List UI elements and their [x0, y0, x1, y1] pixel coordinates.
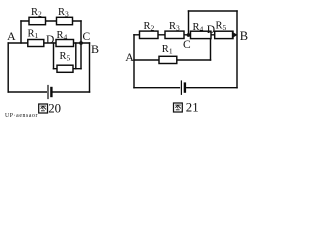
- svg-text:R2: R2: [144, 21, 155, 33]
- svg-text:R4: R4: [57, 30, 68, 42]
- battery cell 21: short thick plate: [184, 84, 186, 92]
- resistor R3 box: [57, 17, 73, 24]
- resistor R3 box: [165, 31, 184, 38]
- arrow at terminal B: [232, 32, 238, 39]
- node C junction dot: [79, 41, 83, 45]
- wire: top row: [21, 20, 81, 22]
- svg-text:R1: R1: [28, 29, 39, 41]
- wire: bottom right segment: [53, 91, 90, 93]
- resistor R4 box: [56, 40, 74, 47]
- wire: bottom left segment: [134, 87, 179, 89]
- wire: R5 row: [54, 68, 82, 70]
- svg-text:D: D: [46, 34, 54, 46]
- svg-text:B: B: [91, 42, 99, 56]
- svg-text:B: B: [240, 29, 248, 43]
- svg-text:R5: R5: [216, 21, 227, 33]
- wire: D drop vertical: [210, 35, 212, 60]
- node C junction dot: [187, 33, 191, 37]
- svg-text:21: 21: [186, 101, 199, 115]
- wire: left edge vertical: [133, 35, 135, 88]
- resistor R4 box: [191, 31, 212, 38]
- svg-text:A: A: [7, 29, 16, 43]
- wire: bypass left riser from C: [188, 11, 190, 35]
- wire: right edge vertical: [89, 43, 91, 92]
- wire: C vertical (top row down to R5 row): [80, 21, 82, 69]
- wire: left edge vertical: [7, 43, 9, 92]
- svg-text:20: 20: [48, 102, 61, 116]
- wire: top row A to arrow: [134, 34, 233, 36]
- caption 图21 glyph 图: [174, 103, 183, 112]
- svg-text:R3: R3: [58, 7, 69, 19]
- resistor R1 box: [28, 40, 44, 47]
- battery cell 20: short thick plate: [50, 88, 52, 96]
- svg-text:R5: R5: [60, 51, 71, 63]
- svg-text:R3: R3: [169, 21, 180, 33]
- wire: bottom right segment: [187, 87, 237, 89]
- wire: bottom left segment: [8, 91, 46, 93]
- wire: top-left drop vertical: [20, 21, 22, 43]
- wire: R1 row: [134, 59, 211, 61]
- wire: bypass top: [189, 10, 238, 12]
- battery cell 20: long plate: [47, 86, 49, 99]
- resistor R2 box: [29, 17, 46, 24]
- wire: R5 right riser: [75, 43, 77, 69]
- svg-text:R1: R1: [162, 44, 173, 56]
- resistor R1 box: [159, 56, 177, 63]
- svg-text:A: A: [125, 50, 134, 64]
- battery cell 21: long plate: [180, 81, 182, 94]
- svg-text:C: C: [83, 31, 91, 43]
- resistor R5 box: [215, 31, 233, 38]
- caption 图20 glyph 图: [39, 104, 48, 113]
- resistor R2 box: [140, 31, 159, 38]
- resistor R5 box: [57, 65, 73, 72]
- wire: D drop vertical: [53, 43, 55, 69]
- svg-text:R2: R2: [31, 7, 42, 19]
- svg-text:R4: R4: [193, 22, 204, 34]
- wire: right edge vertical (and bypass right side): [236, 11, 238, 88]
- svg-text:C: C: [183, 39, 191, 51]
- svg-text:UP·aensaor: UP·aensaor: [5, 113, 38, 119]
- wire: middle row A to C: [8, 42, 89, 44]
- svg-text:D: D: [207, 24, 215, 36]
